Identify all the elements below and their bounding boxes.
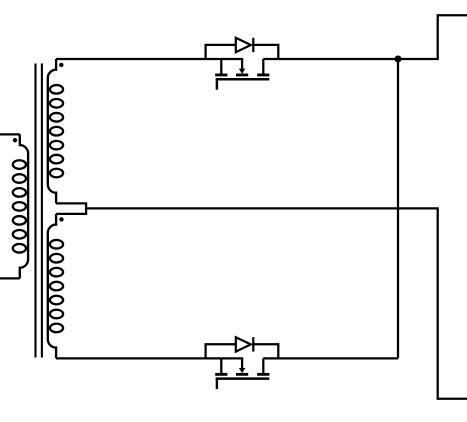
Q2 gate bar [216,377,270,380]
Q1 channel bars [215,74,227,77]
transformer T1 secondary top winding [48,59,63,203]
diode D2 body diode of Q2 [206,337,279,358]
Q2 body stub with arrow [241,358,243,368]
wire bottom rail right (Q2 drain to node) [263,357,398,359]
node A junction dot [395,56,402,63]
Q1 body stub with arrow [241,59,243,69]
transformer T1 secondary top polarity dot [59,63,63,67]
transformer T1 primary winding [13,134,28,278]
Q1 source stub [220,59,222,74]
wire bottom rail left (secondary to Q2 source) [56,357,243,359]
transformer T1 secondary bottom polarity dot [59,217,63,221]
Q1 drain stub [262,59,264,74]
wire primary bottom lead [0,277,20,279]
transistor Q1 MOSFET [215,59,269,90]
Q2 drain stub [262,358,264,373]
wire top rail right (Q1 drain to output) [263,15,467,59]
wire center tap to right terminal [86,208,467,398]
wire primary top lead [0,133,20,135]
wire center tap bracket [56,203,86,214]
Q2 source stub [220,358,222,373]
Q2 channel bars [215,373,227,376]
Q1 gate bar [216,78,270,81]
Q1 gate lead [216,79,218,89]
Q2 gate lead [216,379,218,389]
transformer T1 primary polarity dot [13,138,17,142]
transistor Q2 MOSFET [215,358,269,389]
wire node A to bottom rail [397,59,399,358]
wire top rail left (secondary to Q1 source) [56,58,243,60]
diode D1 body diode of Q1 [206,38,279,59]
transformer T1 core [36,64,42,358]
transformer T1 secondary bottom winding [48,214,63,358]
